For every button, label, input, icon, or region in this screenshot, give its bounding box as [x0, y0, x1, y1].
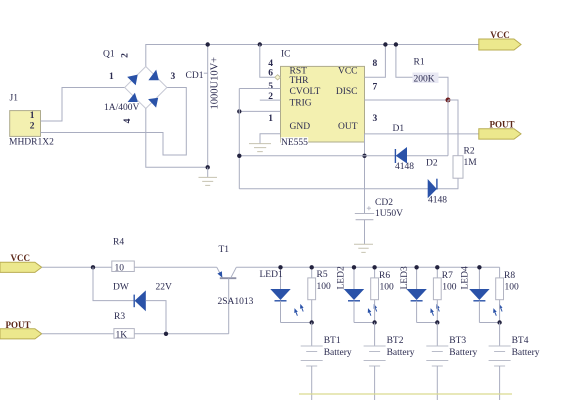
battery BT2 — [364, 323, 415, 400]
wire GND pin 1 — [260, 134, 281, 144]
svg-text:200K: 200K — [414, 74, 435, 84]
resistor R5 100 — [308, 267, 331, 322]
ground CD1 — [199, 167, 218, 185]
svg-text:Battery: Battery — [512, 348, 540, 358]
svg-text:OUT: OUT — [338, 122, 358, 132]
svg-text:D2: D2 — [426, 159, 438, 169]
junction dot VCC zener — [91, 265, 95, 269]
junction dot R1 rail — [394, 42, 398, 46]
resistor R4 10 — [112, 238, 135, 274]
wire J1 pin2 to bridge pin3 — [41, 88, 187, 156]
svg-text:1000U10V+: 1000U10V+ — [210, 57, 221, 110]
junction dot LED1 rail — [278, 265, 282, 269]
svg-text:BT3: BT3 — [449, 336, 466, 346]
wire VCC rail to THR pin 6 — [260, 45, 275, 78]
svg-text:4: 4 — [123, 118, 133, 123]
junction dot node A left — [237, 154, 241, 158]
LED2 — [337, 266, 378, 322]
ground CD2 — [354, 244, 373, 252]
capacitor CD1 1000U10V — [186, 45, 221, 168]
svg-text:R2: R2 — [464, 147, 475, 157]
junction dot R6 rail — [372, 265, 376, 269]
transistor T1 2SA1013 — [217, 245, 254, 334]
junction dot DISC node red — [446, 98, 451, 103]
svg-text:POUT: POUT — [6, 320, 31, 330]
svg-text:1: 1 — [268, 114, 273, 124]
wire battery return bottom — [299, 393, 512, 395]
svg-text:LED3: LED3 — [400, 266, 410, 289]
junction dot zener R3 — [164, 332, 168, 336]
svg-text:VCC: VCC — [338, 66, 358, 76]
svg-text:1: 1 — [30, 111, 35, 121]
svg-text:10: 10 — [115, 264, 125, 274]
svg-text:100: 100 — [505, 283, 520, 293]
resistor R7 100 — [433, 267, 456, 322]
power flag VCC top right — [479, 30, 521, 50]
resistor R3 1K — [114, 312, 134, 340]
svg-text:T1: T1 — [219, 245, 230, 255]
svg-text:LED2: LED2 — [337, 266, 347, 289]
diode Q1 lower-left — [128, 93, 138, 102]
svg-text:R8: R8 — [504, 271, 515, 281]
svg-text:1M: 1M — [464, 158, 478, 168]
junction dot branch1 — [310, 320, 314, 324]
svg-text:100: 100 — [317, 282, 332, 292]
svg-text:Battery: Battery — [387, 348, 415, 358]
svg-text:R6: R6 — [379, 271, 390, 281]
svg-text:GND: GND — [290, 122, 311, 132]
LED1 — [260, 267, 304, 322]
wire branch4 bottom — [479, 322, 499, 324]
wire VCC pin 8 — [365, 45, 386, 78]
svg-text:8: 8 — [373, 59, 378, 69]
svg-text:2: 2 — [30, 121, 35, 131]
svg-text:R4: R4 — [113, 238, 124, 248]
junction dot CD1 bottom — [206, 165, 210, 169]
svg-text:100: 100 — [442, 283, 457, 293]
capacitor CD2 1U50V — [355, 198, 403, 244]
wire J1 pin1 to bridge pin1 — [41, 88, 126, 122]
wire branch2 bottom — [354, 322, 375, 324]
power flag POUT bottom left — [0, 320, 42, 339]
junction dot R7 rail — [435, 265, 439, 269]
wire top VCC rail — [146, 45, 479, 67]
junction dot LED3 rail — [414, 265, 418, 269]
diode Q1 upper-right — [148, 70, 158, 81]
svg-text:1A/400V: 1A/400V — [104, 103, 140, 113]
svg-text:POUT: POUT — [489, 120, 514, 130]
svg-text:MHDR1X2: MHDR1X2 — [9, 138, 54, 148]
svg-text:2SA1013: 2SA1013 — [218, 297, 254, 307]
svg-text:2: 2 — [121, 53, 131, 58]
svg-text:1K: 1K — [116, 330, 128, 340]
diode D2 4148 — [426, 159, 447, 206]
svg-text:LED4: LED4 — [461, 266, 471, 289]
svg-text:3: 3 — [373, 114, 378, 124]
junction dot TRIG — [237, 109, 241, 113]
battery BT4 — [489, 323, 540, 400]
wire DISC pin 7 — [365, 99, 449, 101]
svg-text:Q1: Q1 — [103, 50, 115, 60]
wire TRIG pin 2 stub — [260, 99, 281, 101]
LED1 arrows — [302, 308, 303, 311]
svg-text:DW: DW — [113, 282, 129, 292]
wire TRIG net — [239, 110, 280, 112]
svg-text:DISC: DISC — [336, 87, 358, 97]
svg-text:R1: R1 — [414, 58, 425, 68]
LED3 arrows — [438, 308, 439, 311]
svg-text:3: 3 — [171, 72, 176, 82]
junction dot LED4 rail — [477, 265, 481, 269]
diode Q1 lower-right — [148, 98, 158, 108]
svg-text:VCC: VCC — [490, 30, 510, 40]
svg-text:CD1: CD1 — [186, 71, 204, 81]
svg-text:IC: IC — [281, 49, 291, 59]
junction dot branch3 — [435, 320, 439, 324]
svg-text:7: 7 — [373, 83, 378, 93]
wire node B horizontal D2 line — [239, 188, 458, 190]
svg-text:R5: R5 — [317, 270, 328, 280]
wire bridge bottom to ground rail — [146, 109, 208, 168]
svg-text:RST: RST — [290, 66, 308, 76]
wire branch1 bottom — [281, 322, 312, 324]
svg-text:R3: R3 — [114, 312, 125, 322]
LED2 arrows — [375, 308, 376, 311]
wire LED rail collector — [236, 266, 499, 268]
diode Q1 upper-left — [127, 75, 138, 86]
svg-text:Battery: Battery — [449, 348, 477, 358]
bridge rectifier Q1 — [103, 50, 176, 124]
svg-text:1: 1 — [109, 72, 114, 82]
wire OUT branch down to CD2 — [364, 134, 366, 214]
svg-text:CVOLT: CVOLT — [290, 87, 321, 97]
svg-text:CD2: CD2 — [375, 198, 393, 208]
svg-text:R7: R7 — [442, 271, 453, 281]
wire CVOLT pin 5 — [239, 88, 280, 90]
wire R4 to T1 emitter — [134, 266, 217, 268]
svg-text:TRIG: TRIG — [290, 99, 312, 109]
svg-text:D1: D1 — [393, 124, 405, 134]
svg-text:NE555: NE555 — [281, 138, 308, 148]
junction dot R5 rail — [310, 265, 314, 269]
wire node A horizontal D1 line — [239, 100, 448, 156]
junction dot branch4 — [497, 320, 501, 324]
svg-text:BT2: BT2 — [387, 336, 404, 346]
svg-text:1U50V: 1U50V — [375, 209, 403, 219]
resistor R8 100 — [496, 267, 519, 322]
power flag VCC bottom left — [0, 253, 42, 272]
LED4 arrows — [501, 308, 502, 311]
svg-text:J1: J1 — [10, 94, 19, 104]
LED3 — [400, 266, 440, 322]
svg-text:5: 5 — [268, 82, 273, 92]
svg-text:VCC: VCC — [11, 253, 31, 263]
battery BT1 — [301, 323, 352, 400]
svg-text:Battery: Battery — [324, 348, 352, 358]
wire POUT to R3 to T1 base — [42, 333, 229, 335]
junction dot LED2 rail — [352, 265, 356, 269]
svg-text:100: 100 — [380, 283, 395, 293]
diode D1 4148 — [393, 124, 415, 172]
power flag POUT top right — [479, 120, 521, 140]
wire VCC flag to R4 — [42, 266, 112, 268]
svg-text:BT1: BT1 — [324, 336, 341, 346]
ground IC pin 1 — [249, 144, 271, 152]
svg-text:BT4: BT4 — [512, 336, 529, 346]
IC NE555 — [268, 49, 377, 148]
junction dot rail to THR — [258, 42, 262, 46]
junction dot branch2 — [372, 320, 376, 324]
connector J1 — [9, 94, 54, 148]
junction dot pin 8 rail — [383, 42, 387, 46]
svg-text:THR: THR — [290, 76, 310, 86]
battery BT3 — [426, 323, 477, 400]
zener diode DW 22V — [93, 267, 172, 334]
no-connect diamond pin 6 — [275, 75, 281, 80]
resistor R2 1M — [448, 100, 477, 189]
resistor R6 100 — [371, 267, 394, 322]
resistor R1 200K — [396, 45, 448, 101]
junction dot OUT branch — [362, 154, 366, 158]
LED4 — [461, 266, 503, 322]
wire OUT pin 3 to POUT — [365, 133, 479, 135]
wire branch3 bottom — [417, 322, 438, 324]
svg-text:22V: 22V — [156, 282, 173, 292]
svg-text:4148: 4148 — [428, 195, 447, 205]
wire TRIG vertical — [238, 89, 240, 189]
svg-text:LED1: LED1 — [260, 270, 283, 280]
junction dot CD1 top — [206, 42, 210, 46]
svg-text:4148: 4148 — [395, 162, 414, 172]
